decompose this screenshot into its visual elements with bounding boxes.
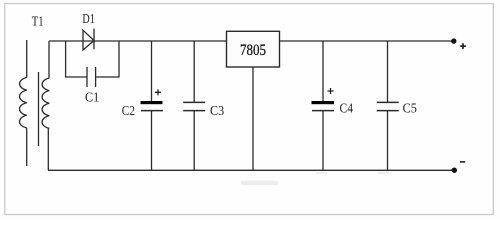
wire C1 branch left: [66, 41, 87, 77]
transformer T1 primary winding: [20, 78, 27, 128]
capacitor C3 stem: [193, 41, 195, 170]
svg-text:C4: C4: [340, 101, 354, 116]
svg-text:T1: T1: [32, 14, 44, 29]
capacitor C4 stem: [322, 41, 324, 170]
transformer T1 secondary winding: [42, 78, 49, 128]
plus sign at C2: [155, 89, 161, 95]
transformer T1 primary bottom lead: [26, 128, 28, 166]
plus sign at C4: [328, 88, 334, 94]
plus sign at output terminal: [460, 43, 466, 49]
diode D1: [83, 29, 94, 51]
capacitor C2 positive plate: [141, 101, 163, 104]
svg-text:C1: C1: [85, 90, 99, 105]
terminal - dot: [452, 168, 457, 173]
transformer T1 secondary bottom lead: [47, 128, 49, 170]
capacitor C5 stem: [387, 41, 389, 170]
capacitor C5 plates: [377, 102, 399, 110]
svg-text:C2: C2: [122, 103, 135, 118]
capacitor C3 plates: [183, 102, 205, 110]
terminal + dot: [451, 38, 456, 43]
capacitor C1 plates: [87, 67, 96, 87]
svg-text:C5: C5: [403, 101, 417, 116]
wire top rail left of 7805: [49, 40, 227, 42]
regulator U1 box: [227, 31, 280, 67]
capacitor C4 bottom plate: [312, 110, 334, 112]
transformer T1 secondary top lead: [48, 41, 50, 78]
capacitor C4 positive plate: [312, 101, 335, 104]
wire C1 branch right: [96, 41, 119, 77]
svg-text:D1: D1: [82, 11, 94, 26]
transformer T1 primary top lead: [26, 40, 28, 78]
transformer T1 core: [38, 72, 40, 146]
capacitor C2 stem: [151, 41, 153, 170]
capacitor C2 bottom plate: [141, 110, 163, 112]
wire top rail right of 7805: [280, 40, 453, 42]
svg-text:C3: C3: [210, 103, 224, 118]
svg-text:7805: 7805: [240, 42, 266, 59]
minus sign at output terminal: [460, 161, 465, 163]
wire bottom rail: [48, 169, 454, 171]
regulator U1 pin 2 (gnd): [252, 67, 254, 170]
